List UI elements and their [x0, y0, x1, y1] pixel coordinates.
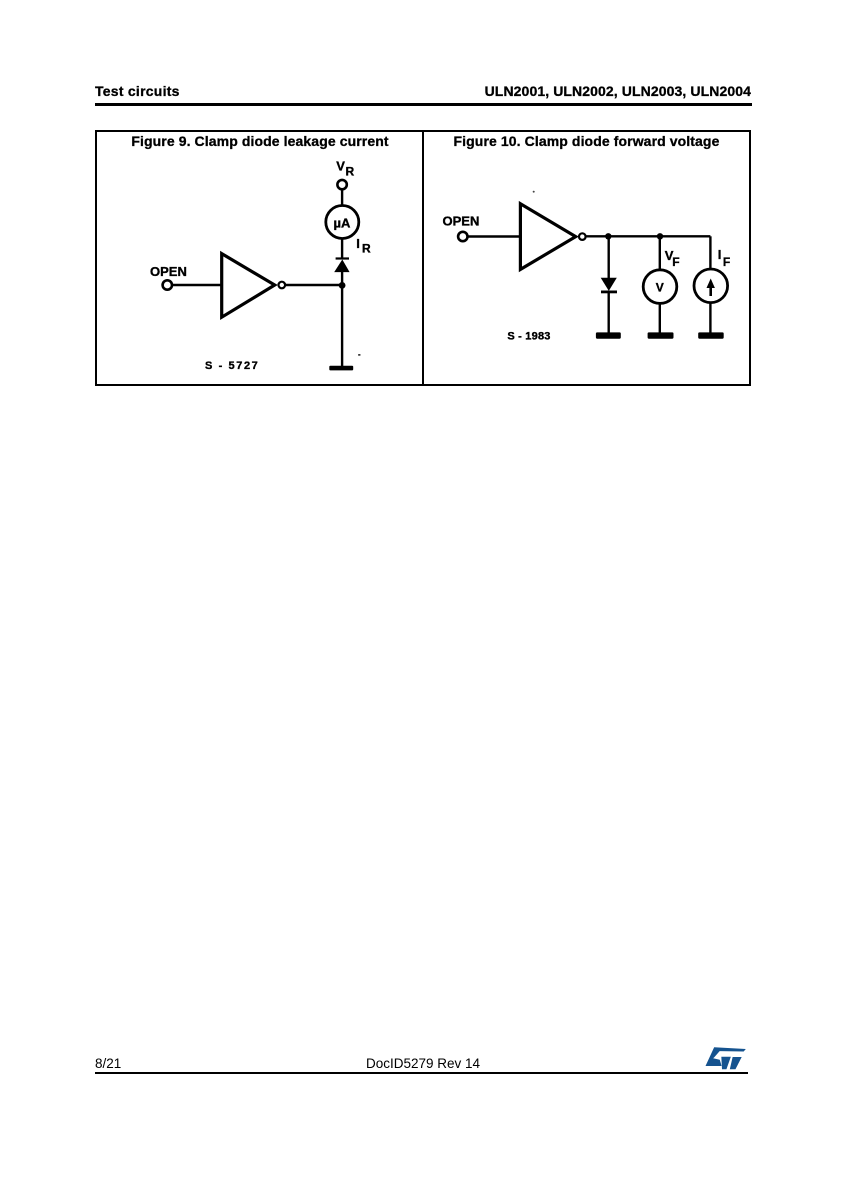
wire VR terminal to meter: [341, 189, 343, 205]
svg-text:V: V: [336, 159, 345, 174]
wire current source to ground3: [709, 303, 711, 333]
wire input terminal to buffer: [468, 235, 521, 237]
wire diode to ground1: [608, 292, 610, 333]
junction dot 1: [605, 233, 611, 239]
figure 9 title: [97, 133, 423, 149]
header rule: [95, 103, 752, 106]
figure 10 title: [423, 133, 750, 149]
wire junction to ground: [341, 285, 343, 366]
junction dot 2: [657, 233, 663, 239]
wire diode to junction: [341, 271, 343, 286]
node VR terminal: [337, 180, 346, 189]
diode D1 (clamp diode): [334, 260, 349, 273]
svg-text:R: R: [346, 165, 355, 179]
svg-text:F: F: [672, 255, 679, 269]
wire junction2 to voltmeter: [659, 236, 661, 269]
header left: Test circuits: [95, 83, 180, 99]
svg-text:R: R: [362, 242, 371, 256]
figure 10 circuit SVG: [423, 130, 750, 385]
figure box divider: [422, 130, 424, 385]
buffer output bubble: [579, 233, 586, 240]
wire input terminal to buffer: [173, 284, 224, 286]
figure 9 circuit SVG: [95, 130, 423, 385]
ground 2: [648, 332, 674, 338]
node OPEN input terminal: [163, 280, 172, 289]
ground 1: [596, 332, 621, 338]
wire output bubble to junction: [286, 284, 342, 286]
wire corner down to current source: [709, 236, 711, 269]
buffer U1 triangle: [222, 254, 275, 318]
svg-text:µA: µA: [334, 216, 351, 231]
wire junction1 to diode: [608, 236, 610, 279]
ground 3: [698, 332, 724, 338]
wire bus from bubble to right corner: [587, 235, 711, 237]
svg-text:I: I: [356, 236, 360, 251]
svg-text:V: V: [656, 280, 664, 294]
voltmeter V circle: [643, 270, 677, 304]
figure box frame: [95, 130, 751, 386]
ground: [329, 366, 353, 371]
svg-text:OPEN: OPEN: [150, 264, 187, 279]
wire meter to diode: [341, 239, 343, 259]
footer rule: [95, 1072, 748, 1074]
svg-text:OPEN: OPEN: [443, 213, 480, 228]
ST logo: [704, 1045, 748, 1071]
scan speck: [358, 354, 361, 356]
buffer output bubble: [279, 282, 286, 289]
current source arrow: [709, 285, 712, 296]
node OPEN input terminal: [458, 232, 467, 241]
wire voltmeter to ground2: [659, 304, 661, 333]
buffer U2 triangle: [520, 204, 575, 270]
junction dot: [339, 282, 346, 289]
footer page number: [95, 1056, 121, 1071]
svg-text:I: I: [718, 247, 722, 262]
current source circle: [694, 269, 728, 303]
diode D2 (clamp diode): [601, 278, 617, 291]
header right: part numbers: [484, 83, 751, 99]
svg-text:S - 1983: S - 1983: [507, 331, 550, 343]
ammeter U1 circle: [326, 206, 359, 239]
svg-text:S - 5727: S - 5727: [205, 360, 259, 372]
scan speck: [533, 191, 535, 193]
svg-text:F: F: [723, 255, 730, 269]
footer doc id: [363, 1056, 483, 1071]
